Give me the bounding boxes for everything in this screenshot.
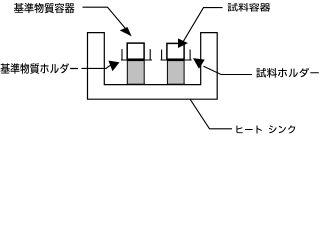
callout line: sample container <box>184 8 223 42</box>
label: heat sink <box>236 125 295 133</box>
label: sample container <box>228 3 271 12</box>
callout line: reference material container <box>83 7 126 29</box>
reference material holder arms <box>122 50 152 60</box>
sample container (cup) <box>167 43 184 59</box>
arrowhead: sample holder <box>193 58 205 69</box>
arrowhead: reference material holder <box>108 61 119 72</box>
reference material container (cup) <box>127 43 144 59</box>
arrowhead: sample container <box>178 38 188 48</box>
arrowhead: reference material container <box>120 27 132 36</box>
label: sample holder <box>256 68 319 78</box>
label: reference material holder <box>1 63 79 74</box>
sample holder pedestal <box>167 61 184 85</box>
sample holder arms <box>161 50 191 60</box>
heat sink body <box>88 33 218 100</box>
reference material holder pedestal <box>127 61 144 85</box>
label: reference material container <box>14 3 74 13</box>
callout line: heat sink <box>190 99 231 128</box>
callout line: sample holder <box>204 67 252 75</box>
callout line: reference material holder <box>82 66 110 69</box>
